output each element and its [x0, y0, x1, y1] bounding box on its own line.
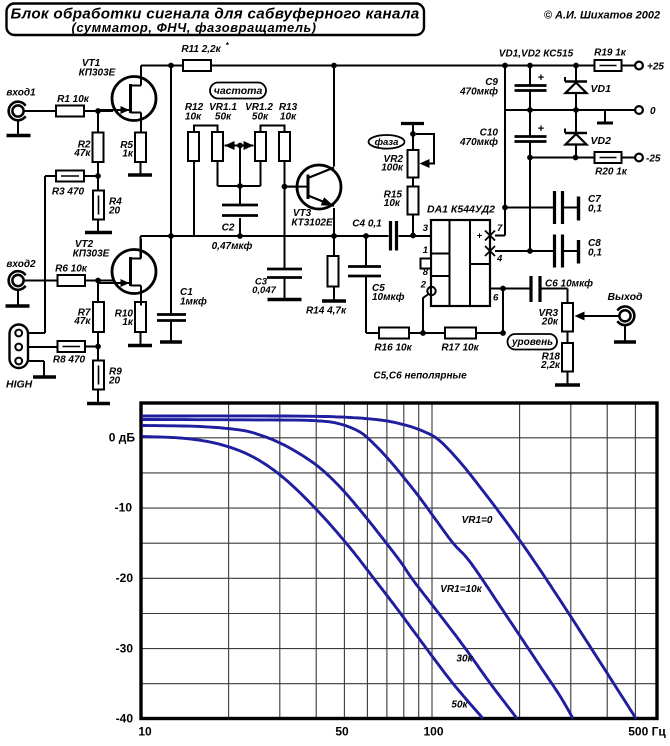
svg-text:30к: 30к — [456, 654, 473, 665]
svg-text:вход1: вход1 — [6, 88, 36, 99]
svg-text:-30: -30 — [116, 642, 134, 656]
svg-text:частота: частота — [214, 85, 263, 97]
svg-text:VR1=0: VR1=0 — [462, 515, 493, 526]
svg-text:100: 100 — [423, 725, 443, 739]
svg-text:DA1 К544УД2: DA1 К544УД2 — [427, 204, 495, 216]
svg-text:500 Гц: 500 Гц — [628, 725, 666, 739]
svg-text:10к: 10к — [185, 112, 202, 123]
svg-text:КП303Е: КП303Е — [79, 68, 116, 79]
svg-text:3: 3 — [423, 223, 429, 234]
svg-text:-10: -10 — [115, 501, 133, 515]
svg-text:470мкф: 470мкф — [459, 86, 498, 98]
svg-text:R6 10к: R6 10к — [55, 264, 88, 275]
svg-text:20: 20 — [108, 376, 121, 387]
svg-text:+: + — [477, 231, 483, 242]
svg-text:470мкф: 470мкф — [459, 136, 498, 148]
svg-text:VD1: VD1 — [591, 83, 612, 95]
svg-text:20: 20 — [108, 206, 121, 217]
svg-text:Выход: Выход — [607, 291, 643, 303]
svg-text:0,047: 0,047 — [252, 285, 276, 296]
svg-text:R8 470: R8 470 — [53, 355, 86, 366]
svg-text:1к: 1к — [122, 317, 134, 328]
svg-text:0: 0 — [650, 106, 656, 117]
svg-text:C5,C6 неполярные: C5,C6 неполярные — [373, 371, 467, 382]
svg-text:7: 7 — [497, 223, 503, 234]
svg-text:47к: 47к — [73, 316, 91, 327]
svg-text:4: 4 — [496, 254, 503, 265]
svg-text:0 дБ: 0 дБ — [109, 431, 136, 445]
svg-text:VD2: VD2 — [591, 135, 612, 147]
svg-text:6: 6 — [493, 293, 499, 304]
svg-text:50к: 50к — [215, 112, 232, 123]
svg-text:R1 10к: R1 10к — [57, 94, 90, 105]
svg-text:20к: 20к — [541, 317, 559, 328]
svg-text:+: + — [538, 123, 544, 135]
svg-text:47к: 47к — [73, 148, 91, 159]
svg-text:1к: 1к — [122, 149, 134, 160]
svg-text:10мкф: 10мкф — [372, 291, 405, 303]
svg-text:(сумматор, ФНЧ, фазовращатель): (сумматор, ФНЧ, фазовращатель) — [72, 20, 317, 35]
svg-text:фаза: фаза — [375, 137, 399, 148]
svg-text:0,47мкф: 0,47мкф — [212, 240, 253, 252]
svg-text:0,1: 0,1 — [588, 248, 602, 259]
svg-text:8: 8 — [423, 267, 429, 278]
svg-text:2: 2 — [420, 280, 427, 291]
svg-text:50: 50 — [335, 725, 349, 739]
svg-text:-25: -25 — [646, 154, 661, 165]
svg-text:1: 1 — [423, 245, 428, 256]
svg-text:0,1: 0,1 — [588, 204, 602, 215]
svg-text:2,2к: 2,2к — [540, 360, 561, 371]
svg-text:HIGH: HIGH — [6, 379, 33, 391]
svg-text:50к: 50к — [451, 700, 468, 711]
svg-text:1мкф: 1мкф — [180, 296, 207, 308]
svg-text:50к: 50к — [252, 112, 269, 123]
svg-text:уровень: уровень — [511, 337, 553, 348]
svg-text:VR1=10к: VR1=10к — [440, 584, 482, 595]
svg-text:10: 10 — [138, 725, 152, 739]
svg-text:-40: -40 — [116, 712, 134, 726]
svg-text:+25: +25 — [647, 62, 664, 73]
svg-text:R11 2,2к: R11 2,2к — [181, 44, 221, 55]
svg-text:+: + — [538, 72, 544, 84]
svg-text:C4 0,1: C4 0,1 — [352, 219, 382, 230]
svg-text:R16 10к: R16 10к — [374, 343, 412, 354]
svg-text:VD1,VD2 КС515: VD1,VD2 КС515 — [499, 49, 574, 60]
svg-text:R3 470: R3 470 — [52, 187, 85, 198]
svg-text:10к: 10к — [280, 112, 297, 123]
svg-text:C6 10мкф: C6 10мкф — [545, 278, 593, 290]
svg-text:вход2: вход2 — [6, 259, 36, 270]
svg-text:КП303Е: КП303Е — [73, 249, 110, 260]
svg-text:10к: 10к — [384, 198, 401, 209]
svg-text:100к: 100к — [381, 163, 404, 174]
svg-text:C2: C2 — [222, 223, 235, 234]
svg-text:КТ3102Е: КТ3102Е — [291, 218, 333, 229]
svg-text:-20: -20 — [116, 571, 134, 585]
svg-text:R19 1к: R19 1к — [594, 48, 627, 59]
svg-text:© А.И. Шихатов 2002: © А.И. Шихатов 2002 — [544, 10, 660, 22]
svg-text:R14 4,7к: R14 4,7к — [306, 306, 347, 317]
svg-text:R17 10к: R17 10к — [441, 343, 479, 354]
svg-text:R20 1к: R20 1к — [595, 167, 628, 178]
